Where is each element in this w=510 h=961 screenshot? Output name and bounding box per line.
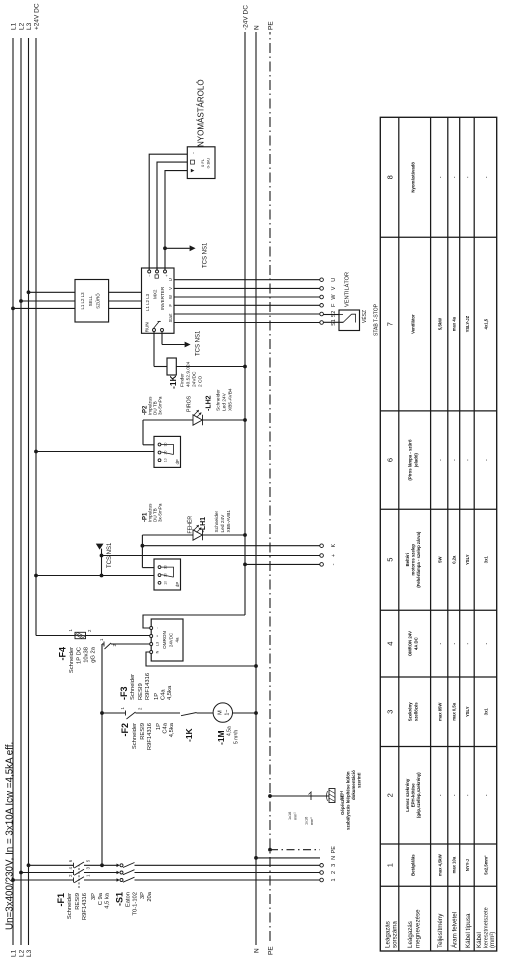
svg-text:Un=3x400/230V, In = 3x10A Icw: Un=3x400/230V, In = 3x10A Icw =4,5kA eff…: [5, 742, 16, 930]
svg-text:Schneider: Schneider: [130, 674, 136, 700]
svg-text:2: 2: [87, 629, 92, 632]
svg-text:-: -: [452, 459, 457, 461]
svg-text:max 4,5kW: max 4,5kW: [438, 854, 443, 876]
svg-text:N: N: [254, 948, 261, 953]
svg-text:-1M: -1M: [216, 730, 226, 745]
svg-text:-24V DC: -24V DC: [243, 5, 250, 30]
svg-text:4A DC: 4A DC: [413, 637, 418, 650]
wire feed drop 3 middle: [84, 864, 118, 866]
svg-text:C 9a: C 9a: [98, 892, 104, 905]
wire F4 through: [75, 635, 86, 637]
wire feed drop 3 upper: [29, 864, 74, 866]
junction dot feeder branch F3: [100, 711, 104, 715]
svg-text:NYY-J: NYY-J: [465, 858, 470, 871]
breaker F1 pole 2: [73, 870, 75, 875]
wire filter input L1: [13, 307, 75, 309]
svg-text:10: 10: [164, 458, 168, 462]
wire F2 to PSU: [111, 643, 150, 645]
wire LH1 riser horizontal: [141, 535, 143, 568]
breaker F1 linkage: [78, 865, 80, 888]
svg-text:1P: 1P: [156, 723, 162, 730]
svg-text:-: -: [465, 794, 470, 796]
svg-text:R9F14316: R9F14316: [82, 893, 88, 920]
svg-text:Schneider: Schneider: [216, 389, 222, 411]
svg-text:-LH1: -LH1: [200, 517, 207, 533]
svg-text:INVERTER: INVERTER: [160, 286, 165, 310]
wire filter to inverter L2: [109, 300, 142, 302]
wire feed drop 2 middle: [84, 872, 118, 874]
wire transducer C: [165, 171, 187, 270]
svg-text:3: 3: [386, 710, 395, 714]
pressure transducer B1 box: [187, 147, 215, 179]
svg-text:Led 24V: Led 24V: [222, 392, 228, 411]
svg-text:0 FL: 0 FL: [200, 158, 205, 167]
svg-text:Schneider: Schneider: [132, 723, 138, 749]
svg-text:L3: L3: [26, 949, 33, 957]
breaker F3 contact: [125, 711, 127, 716]
svg-text:szerint!: szerint!: [357, 772, 362, 788]
svg-text:3x-5mPa: 3x-5mPa: [158, 503, 163, 522]
wire transducer B: [157, 162, 187, 270]
svg-text:-: -: [484, 642, 489, 644]
svg-text:-: -: [438, 176, 443, 178]
terminal circle W: [320, 295, 324, 299]
svg-text:gG 2a: gG 2a: [91, 646, 97, 663]
junction dot EPH: [268, 794, 272, 798]
breaker F1 pole 1: [73, 878, 75, 883]
junction dot filter tap L1: [11, 307, 15, 311]
power supply U2 box: [151, 619, 183, 661]
switch S1 pole 3: [117, 864, 120, 868]
filter Z1 box: [75, 280, 109, 323]
terminal inverter aux2: [156, 270, 159, 273]
svg-text:1x16: 1x16: [288, 812, 292, 820]
terminal circle 3: [320, 864, 324, 868]
svg-text:Gépészeti: Gépészeti: [340, 794, 345, 815]
wire +24V to P1: [36, 575, 154, 577]
svg-text:Led 24V: Led 24V: [220, 514, 226, 533]
wire inverter output F: [174, 304, 320, 306]
svg-text:OMRON 24V: OMRON 24V: [408, 631, 413, 656]
svg-text:L1: L1: [11, 22, 18, 30]
switch S1 pole 1: [117, 878, 120, 882]
wire +24V to P2: [36, 451, 154, 453]
svg-text:-1K: -1K: [184, 727, 194, 742]
svg-text:+: +: [331, 554, 337, 557]
svg-text:Schneider: Schneider: [69, 647, 75, 673]
svg-text:L3: L3: [156, 642, 160, 646]
svg-text:4a: 4a: [175, 637, 180, 642]
wire F4 vertical upper: [36, 635, 75, 637]
wire inverter output V: [174, 287, 320, 289]
svg-text:YSLY: YSLY: [465, 554, 470, 565]
svg-text:Schneider: Schneider: [214, 510, 220, 532]
junction dot flag2: [100, 574, 104, 578]
junction dot +24V to P1: [34, 574, 38, 578]
wire coil vertical lower: [176, 366, 245, 368]
wire LH1 riser vertical: [142, 567, 154, 569]
wire minus terminal: [245, 563, 320, 565]
svg-text:4x1,5: 4x1,5: [484, 318, 489, 329]
svg-text:OMRON: OMRON: [162, 631, 167, 649]
contact RUN: [153, 321, 159, 329]
svg-text:L1 L2 L3: L1 L2 L3: [80, 292, 85, 310]
svg-text:0-1kU: 0-1kU: [206, 158, 211, 169]
svg-text:MX2: MX2: [153, 289, 158, 299]
terminal circle 1: [320, 878, 324, 882]
wire LH2 riser horizontal: [142, 420, 144, 445]
wire flag1 vertical: [162, 344, 185, 346]
junction dot filter tap L2: [19, 299, 23, 303]
svg-text:motoros szelep: motoros szelep: [411, 544, 416, 576]
svg-text:megnevezése: megnevezése: [415, 909, 422, 948]
junction dot feed tap 2: [19, 871, 23, 875]
junction dot motor N: [254, 711, 258, 715]
svg-text:-: -: [331, 563, 337, 565]
wire feeder horizontal: [101, 644, 103, 865]
svg-text:~: ~: [148, 274, 152, 277]
svg-text:Leágazás: Leágazás: [385, 921, 392, 948]
svg-text:-: -: [465, 176, 470, 178]
svg-text:-: -: [452, 642, 457, 644]
svg-text:Lemez szekrény: Lemez szekrény: [405, 778, 410, 812]
wire inverter output W: [174, 296, 320, 298]
terminal PSU N: [150, 651, 153, 654]
svg-text:2: 2: [386, 793, 395, 797]
node EPH tick: [310, 792, 312, 800]
wire filter to inverter L3: [109, 291, 142, 293]
svg-text:-: -: [438, 642, 443, 644]
svg-text:-: -: [438, 794, 443, 796]
svg-text:C4a: C4a: [163, 722, 169, 733]
svg-text:4: 4: [68, 866, 73, 869]
svg-text:Áram felvétel: Áram felvétel: [452, 912, 459, 948]
svg-text:szabályozás kiépítése külön: szabályozás kiépítése külön: [346, 771, 351, 830]
wire EPH drop: [270, 795, 329, 797]
svg-text:max 4a: max 4a: [452, 316, 457, 331]
svg-text:24VDC: 24VDC: [169, 633, 174, 647]
svg-text:V: V: [331, 286, 337, 290]
terminal RUN 1: [153, 329, 156, 332]
terminal circle S2: [320, 312, 324, 316]
svg-text:-LH2: -LH2: [206, 395, 213, 411]
breaker F1 pole 3: [73, 863, 75, 868]
svg-text:L1 L2 L3: L1 L2 L3: [145, 293, 150, 311]
svg-text:5W: 5W: [438, 557, 443, 563]
junction dot feed tap 3: [27, 863, 31, 867]
svg-text:PE: PE: [268, 946, 275, 955]
svg-text:20a: 20a: [147, 891, 153, 901]
svg-text:TCS NS1: TCS NS1: [203, 242, 209, 268]
svg-text:1P DC: 1P DC: [77, 647, 83, 664]
svg-text:C4a: C4a: [161, 689, 167, 700]
svg-text:-: -: [452, 176, 457, 178]
svg-text:EPH-kötése: EPH-kötése: [411, 783, 416, 807]
terminal PSU L3: [150, 643, 153, 646]
svg-text:+24V DC: +24V DC: [34, 3, 41, 30]
wire +24V DC rail: [35, 38, 37, 636]
svg-text:-S1: -S1: [115, 892, 125, 906]
svg-text:R9F14316: R9F14316: [147, 723, 153, 750]
wire N rail: [255, 32, 257, 945]
motor M1 circle: [213, 703, 232, 722]
wire PSU N to N rail: [146, 652, 256, 666]
flag TCS NS1 (24V): [96, 544, 104, 550]
wire PE rail: [269, 32, 271, 941]
breaker F2 contact: [103, 642, 105, 647]
junction dot coil: [243, 365, 247, 369]
wire feed drop 3 lower: [135, 864, 320, 866]
svg-text:Ventilátor: Ventilátor: [411, 314, 416, 334]
svg-text:K: K: [331, 544, 337, 548]
svg-text:3x1: 3x1: [484, 708, 489, 716]
terminal RUN 2: [161, 329, 164, 332]
wire F3 lower: [136, 712, 181, 714]
svg-text:SELL: SELL: [88, 295, 93, 306]
svg-text:SZŰRŐ: SZŰRŐ: [96, 293, 101, 309]
svg-text:PIROS: PIROS: [187, 395, 193, 412]
svg-text:W: W: [331, 294, 337, 300]
wire N drop: [256, 857, 320, 859]
svg-text:N: N: [254, 25, 261, 30]
wire F3 upper: [102, 712, 126, 714]
svg-text:YSLY: YSLY: [465, 706, 470, 717]
terminal circle V: [320, 287, 324, 291]
svg-text:3x-5mPa: 3x-5mPa: [158, 396, 163, 415]
svg-text:-: -: [484, 459, 489, 461]
terminal PSU minus: [150, 627, 153, 630]
svg-text:L2: L2: [19, 949, 26, 957]
junction dot N drop: [254, 856, 258, 860]
wire LH2 lower: [203, 419, 246, 421]
wire motor to N: [233, 712, 257, 714]
svg-text:RESI9: RESI9: [75, 893, 81, 910]
terminal circle minus: [320, 563, 324, 567]
svg-text:4: 4: [386, 642, 395, 646]
svg-text:U: U: [331, 278, 337, 282]
svg-text:-1K: -1K: [168, 374, 178, 389]
switch S1 pole 2: [117, 871, 120, 875]
junction dot PE drop: [268, 848, 272, 852]
junction dot feed tap 1: [11, 878, 15, 882]
junction dot flag3: [163, 246, 167, 250]
wire feed drop 2 upper: [21, 872, 74, 874]
svg-text:5,5kW: 5,5kW: [438, 318, 443, 330]
junction dot LH2: [243, 418, 247, 422]
wire motor feed: [197, 712, 214, 714]
svg-text:-: -: [484, 794, 489, 796]
svg-text:F: F: [168, 304, 173, 307]
svg-text:7: 7: [386, 322, 395, 326]
svg-text:T0-1-102: T0-1-102: [133, 892, 139, 916]
svg-text:mm²: mm²: [310, 817, 314, 825]
svg-text:-: -: [465, 642, 470, 644]
svg-text:4,5ka: 4,5ka: [169, 722, 175, 737]
svg-text:5 m³/h: 5 m³/h: [234, 730, 240, 744]
svg-text:N: N: [331, 856, 337, 860]
wire feed drop 1 lower: [135, 879, 320, 881]
svg-text:Betáplálás: Betáplálás: [411, 854, 416, 876]
svg-text:1: 1: [86, 874, 91, 877]
junction dot LH1: [243, 533, 247, 537]
wire coil horizontal: [153, 332, 155, 367]
svg-text:Nyomástávadó: Nyomástávadó: [411, 162, 416, 193]
svg-text:max 0,5a: max 0,5a: [452, 702, 457, 720]
svg-text:Teljesítmény: Teljesítmény: [437, 913, 444, 948]
svg-text:-: -: [452, 794, 457, 796]
svg-text:-: -: [438, 459, 443, 461]
svg-text:Beltéri: Beltéri: [405, 553, 410, 566]
junction dot PSU N: [254, 664, 258, 668]
svg-text:5x2,5mm²: 5x2,5mm²: [484, 855, 489, 875]
svg-text:L2: L2: [19, 22, 26, 30]
svg-text:RUN: RUN: [145, 322, 150, 332]
svg-text:3: 3: [331, 864, 337, 867]
svg-text:-F2: -F2: [120, 723, 130, 737]
wire inverter output S2: [174, 313, 320, 315]
pressure switch P2 box: [154, 436, 181, 467]
terminal circle plus: [320, 554, 324, 558]
svg-text:dokumentáció: dokumentáció: [351, 770, 356, 800]
svg-text:~: ~: [191, 151, 196, 154]
svg-text:Schneider: Schneider: [67, 893, 73, 919]
flag TCS NS1 (transducer): [190, 245, 196, 251]
svg-text:1: 1: [120, 707, 125, 710]
svg-text:-F1: -F1: [56, 893, 66, 907]
svg-text:RESI9: RESI9: [140, 723, 146, 740]
contact K1 in motor branch: [181, 713, 197, 716]
svg-text:6: 6: [386, 458, 395, 462]
svg-text:8: 8: [386, 175, 395, 179]
wire LH1 lower: [203, 534, 246, 536]
svg-text:-: -: [484, 176, 489, 178]
svg-text:NYOMÁSTÁROLÓ: NYOMÁSTÁROLÓ: [197, 79, 206, 147]
svg-text:max 10a: max 10a: [452, 856, 457, 873]
junction dot K wire: [141, 544, 145, 548]
svg-text:VÉSZ: VÉSZ: [361, 310, 368, 323]
svg-text:24VDC: 24VDC: [192, 371, 198, 387]
svg-text:szellőzés: szellőzés: [413, 702, 418, 721]
wire fan switch S1 wire: [323, 321, 343, 323]
svg-text:sorszáma: sorszáma: [392, 921, 399, 948]
svg-text:V: V: [168, 287, 173, 290]
svg-text:(Piros lámpa - szűrő: (Piros lámpa - szűrő: [408, 439, 413, 480]
svg-text:Leágazás: Leágazás: [407, 921, 414, 948]
svg-text:XB5-AVB1: XB5-AVB1: [226, 510, 232, 533]
svg-text:0,2a: 0,2a: [452, 555, 457, 564]
svg-text:-F4: -F4: [58, 647, 68, 661]
svg-text:VENTILÁTOR: VENTILÁTOR: [344, 272, 351, 307]
svg-text:-: -: [465, 459, 470, 461]
svg-text:R9F14316: R9F14316: [145, 673, 151, 700]
lamp LH2 LED symbol: [193, 415, 202, 425]
wire F4 vertical lower: [86, 635, 150, 637]
wire K terminal: [142, 545, 320, 547]
svg-text:+: +: [156, 634, 160, 637]
wire feed drop 2 lower: [135, 872, 320, 874]
svg-text:L3: L3: [26, 22, 33, 30]
svg-text:PE: PE: [331, 846, 337, 854]
inverter U1 box: [142, 268, 175, 333]
wire L1 rail: [12, 38, 14, 945]
svg-text:TCS NS1: TCS NS1: [196, 330, 202, 356]
svg-text:3P: 3P: [140, 892, 146, 899]
fuse F4 body: [75, 632, 86, 638]
svg-text:6: 6: [68, 859, 73, 862]
svg-text:RESI9: RESI9: [138, 683, 144, 700]
svg-text:3P: 3P: [91, 893, 97, 900]
wire feed drop 1 middle: [84, 879, 118, 881]
svg-text:U: U: [168, 278, 173, 281]
junction dot minus wire: [243, 563, 247, 567]
svg-text:N: N: [156, 650, 160, 653]
wire coil vertical upper: [154, 366, 167, 368]
svg-text:FEHÉR: FEHÉR: [187, 516, 194, 534]
terminal inverter aux1: [148, 270, 151, 273]
flag TCS NS1 (RUN): [185, 342, 191, 348]
svg-text:PE: PE: [268, 21, 275, 30]
svg-text:1~: 1~: [225, 710, 231, 716]
svg-text:STAB T-STOP: STAB T-STOP: [374, 303, 380, 336]
junction dot +24V to P2: [34, 450, 38, 454]
svg-text:10x38: 10x38: [84, 647, 90, 663]
svg-text:Start: Start: [168, 313, 173, 323]
fan safety switch box: [339, 310, 360, 331]
wire filter to inverter L1: [109, 307, 142, 309]
svg-text:1P: 1P: [154, 693, 160, 700]
svg-text:40.52.9.024: 40.52.9.024: [186, 361, 192, 387]
wire -24V DC rail: [244, 32, 246, 615]
svg-text:3x1: 3x1: [484, 556, 489, 564]
lamp LH1 LED symbol: [193, 530, 202, 540]
svg-text:dP: dP: [175, 582, 180, 587]
svg-text:4,5 ka: 4,5 ka: [105, 892, 111, 909]
relay coil K1: [167, 358, 176, 375]
terminal circle 2: [320, 871, 324, 875]
wire filter input L2: [21, 300, 75, 302]
wire fan switch S2 wire: [323, 314, 339, 316]
terminal circle S1: [320, 321, 324, 325]
svg-text:mm²: mm²: [294, 812, 298, 820]
svg-text:-: -: [156, 627, 160, 629]
svg-text:XB5-AVB4: XB5-AVB4: [228, 388, 234, 411]
svg-text:-F3: -F3: [119, 687, 129, 701]
svg-text:Finder: Finder: [180, 373, 186, 387]
fan switch symbol: [339, 314, 343, 316]
svg-text:dP: dP: [175, 459, 180, 464]
svg-text:2: 2: [138, 707, 143, 710]
junction dot filter tap L3: [27, 290, 31, 294]
wire F2 stub: [102, 643, 104, 645]
svg-text:(mm²): (mm²): [489, 932, 496, 949]
wire L3 rail: [28, 38, 30, 945]
svg-text:(Fehérlámpa - szelep zárva): (Fehérlámpa - szelep zárva): [416, 531, 421, 588]
svg-text:1x16: 1x16: [305, 817, 309, 825]
terminal inverter aux3: [164, 270, 167, 273]
svg-text:(gép,szellep,szekrény): (gép,szellep,szekrény): [416, 772, 421, 818]
svg-text:1: 1: [99, 638, 104, 641]
svg-text:2: 2: [331, 871, 337, 874]
wire L2 rail: [20, 38, 22, 945]
svg-text:2 CO: 2 CO: [198, 376, 204, 387]
svg-text:Eaton: Eaton: [126, 892, 132, 907]
svg-text:F: F: [331, 303, 337, 307]
terminal PSU plus: [150, 635, 153, 638]
terminal circle U: [320, 278, 324, 282]
svg-text:1: 1: [68, 629, 73, 632]
wire LH2 riser vertical: [143, 444, 154, 446]
wire feed drop 1 upper: [13, 879, 74, 881]
